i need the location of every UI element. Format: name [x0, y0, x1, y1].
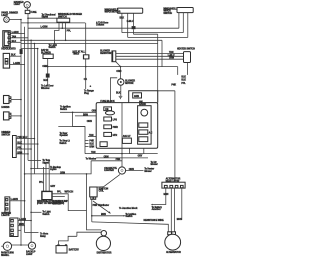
svg-text:SWITCH: SWITCH — [53, 204, 62, 206]
wire: vertical bus x=28 (marker light feed) — [28, 14, 41, 161]
wire: regulator pin 3 — [174, 188, 176, 232]
label: to heater blower — [144, 168, 154, 173]
wire: marker light stem — [27, 8, 29, 10]
distributor: body — [96, 236, 110, 250]
wire: horn 1 lead — [11, 99, 21, 101]
svg-text:HEATER SWITCH: HEATER SWITCH — [177, 47, 195, 50]
fuse block: outline — [96, 103, 158, 149]
svg-text:SIGNAL: SIGNAL — [1, 254, 10, 257]
svg-text:SWITCH: SWITCH — [163, 13, 172, 15]
svg-text:A C: A C — [149, 132, 153, 135]
wire: regulator pin 1 — [151, 188, 166, 206]
svg-text:ORN: ORN — [129, 169, 134, 171]
svg-text:PPL: PPL — [57, 191, 62, 193]
lamp: panel dimmer light — [4, 17, 10, 23]
svg-text:L-GRN: L-GRN — [13, 63, 20, 65]
wire: wiper motor leg 3 with connector — [133, 13, 135, 26]
label: marker lights (lower connector) — [1, 212, 11, 217]
label: to brake — [50, 167, 62, 171]
label: backup light — [26, 251, 36, 256]
label: blower motor — [125, 81, 135, 85]
wire: main horizontal bus y=66.5 — [44, 67, 178, 75]
svg-text:SWITCH: SWITCH — [1, 134, 10, 136]
svg-text:TAN: TAN — [169, 51, 174, 54]
fuse: bottom row right (ash lt) — [122, 135, 131, 143]
lamp: park/turn signal — [1, 242, 11, 250]
relay: RAP in blower box — [43, 54, 53, 58]
svg-text:Switch: Switch — [60, 108, 68, 111]
svg-text:GRY: GRY — [50, 186, 55, 188]
label: to ignition switch — [125, 213, 136, 218]
svg-text:PNK: PNK — [116, 159, 121, 161]
coil: ignition coil — [90, 187, 97, 199]
wire: lower conn wires — [10, 56, 25, 64]
wire: below block TAN — [85, 153, 158, 155]
wire: horizontal y=31.5 bus (wiper) — [134, 33, 158, 35]
wire: battery step from distributor line — [77, 232, 102, 236]
motor: windshield wiper motor — [117, 8, 142, 13]
wire: hot feed vertical — [85, 23, 87, 89]
svg-text:GRN: GRN — [134, 96, 139, 98]
svg-text:BRN: BRN — [177, 219, 182, 221]
label: horns — [1, 107, 9, 109]
svg-text:ORN: ORN — [116, 71, 121, 73]
svg-text:PNK: PNK — [171, 84, 176, 86]
connector: headlight connector lower — [3, 53, 9, 68]
svg-text:BLK: BLK — [89, 143, 94, 145]
wire: horizontal y=36.7 bus (wiper) — [128, 36, 188, 38]
svg-text:ORN: ORN — [42, 66, 47, 68]
wire: stub to brake — [30, 168, 49, 213]
alternator: body — [165, 234, 181, 250]
wire: drop into fuse block left of blower — [110, 78, 117, 103]
label: to PRNDL — [53, 201, 65, 205]
wire: BRN to ignition switch — [92, 215, 126, 217]
svg-text:To Junction Block: To Junction Block — [119, 207, 138, 210]
svg-text:PNK: PNK — [89, 140, 94, 142]
connector: mid-left connector — [5, 197, 10, 212]
wire: ORN into fuse block — [60, 111, 96, 113]
svg-text:GRY: GRY — [138, 155, 143, 157]
wire: washer switch leg 3 PPL — [65, 22, 67, 40]
svg-text:HEADLIGHTS: HEADLIGHTS — [1, 47, 16, 50]
wire: horn 2 lead — [11, 115, 21, 117]
svg-text:BATTERY: BATTERY — [69, 248, 80, 251]
label: fuse block — [100, 101, 115, 103]
wire: heater switch BLK down — [187, 63, 189, 75]
labels: lead tags — [19, 219, 26, 226]
radio: dial circle — [141, 109, 148, 116]
svg-text:L-GRN: L-GRN — [11, 199, 18, 201]
wire: radio drop — [143, 148, 145, 153]
labels: dimmer wire tags — [17, 137, 27, 154]
svg-text:Blower: Blower — [151, 164, 158, 166]
svg-text:CA: CA — [84, 78, 88, 81]
wire: washer switch leg 2 — [61, 22, 63, 28]
wire: wiper motor leg BLK — [121, 13, 123, 32]
label: park turn signal — [1, 252, 14, 257]
svg-text:BRN: BRN — [17, 152, 22, 154]
wire: below block PNK — [91, 160, 122, 162]
label: alternator regulator — [166, 178, 181, 183]
label: to htr blower (right) — [151, 161, 158, 166]
svg-text:LIGHT: LIGHT — [1, 15, 8, 17]
wire: wiper switch leg 2 — [182, 13, 184, 33]
wire: lighter to ignition coil diagonal — [97, 174, 120, 187]
label: to directional signal — [42, 14, 56, 19]
radio: AM radio sub-box — [138, 106, 152, 145]
ground: blower motor ground — [119, 96, 123, 98]
fuse block: upper-right extension — [129, 91, 158, 103]
wire: washer switch leg 1 — [55, 22, 59, 43]
svg-text:Switch: Switch — [125, 215, 133, 218]
wire: vertical bus x=34.4 — [33, 44, 35, 174]
breaker: CB box — [104, 107, 112, 111]
wire: connector to bus — [133, 29, 135, 34]
wire: washer pump feeds — [44, 160, 50, 191]
label: BLK / to left door — [41, 80, 54, 90]
svg-text:MOTOR: MOTOR — [125, 83, 134, 85]
svg-text:TAN: TAN — [12, 35, 17, 38]
svg-text:RESISTOR: RESISTOR — [100, 53, 111, 55]
svg-text:BLK: BLK — [12, 41, 17, 43]
svg-text:LIGHTER: LIGHTER — [104, 170, 114, 172]
switch: heater switch — [184, 52, 191, 63]
fuse: GRN box in extension — [133, 93, 142, 98]
wire: wiper switch leg 1 — [178, 13, 180, 29]
svg-text:PPL: PPL — [67, 31, 72, 33]
wire: TAN into fuse block — [88, 135, 96, 137]
label: heater switch — [177, 47, 195, 50]
labels: TAN L-BLU ORN — [168, 51, 175, 60]
fuse: marker light fuse — [25, 10, 37, 14]
radio: connector 1 — [139, 123, 148, 127]
wire: mid connector lead — [10, 200, 25, 202]
svg-text:L-BLU: L-BLU — [168, 55, 175, 57]
wire: regulator pin 2 — [170, 188, 172, 232]
svg-text:W/TACH: W/TACH — [65, 190, 74, 193]
svg-text:ORN: ORN — [169, 58, 174, 60]
svg-text:Junction: Junction — [152, 208, 162, 211]
motor: blower motor — [118, 79, 124, 85]
label: AM radio — [139, 101, 146, 106]
svg-text:Column: Column — [96, 25, 105, 27]
svg-text:REGULATOR: REGULATOR — [166, 180, 180, 183]
wire: pump side lead 2 — [52, 196, 65, 198]
svg-text:Blower: Blower — [144, 171, 151, 173]
svg-text:BLK: BLK — [181, 80, 186, 82]
label: RAP in blower — [41, 49, 51, 54]
wire: upper step line — [58, 126, 85, 128]
label: windshield wiper motor — [105, 10, 121, 14]
label: to rear speaker — [60, 133, 69, 137]
wire: resistor to heater switch TAN — [116, 52, 184, 54]
connector: dimmer switch connector — [13, 136, 17, 158]
wire: battery stepped feed — [59, 236, 77, 244]
wire: RAP lead tail — [47, 78, 49, 85]
svg-text:BRN: BRN — [101, 214, 106, 216]
svg-text:ORN: ORN — [104, 156, 109, 158]
svg-text:PNK: PNK — [93, 205, 98, 207]
svg-text:BRN: BRN — [89, 146, 94, 148]
svg-text:LPS: LPS — [113, 120, 118, 122]
svg-text:RESISTANCE WIRE: RESISTANCE WIRE — [144, 219, 165, 222]
svg-text:Signal: Signal — [42, 17, 49, 19]
connector: lower-left connector — [10, 218, 18, 237]
svg-text:Window: Window — [41, 88, 50, 90]
resistor: blower resistor — [112, 51, 116, 62]
svg-text:TIMES: TIMES — [73, 54, 80, 56]
svg-text:ORN: ORN — [87, 121, 92, 123]
svg-text:BRN: BRN — [164, 194, 169, 196]
wire: regulator pin 4 to battery junction — [181, 188, 183, 220]
wire: park to backup — [12, 244, 29, 246]
connector: black box on RAP lead — [46, 74, 50, 78]
label: windshield washer switch — [58, 13, 82, 18]
label: to wiper motor — [42, 160, 50, 164]
horn: lower horn — [4, 112, 11, 120]
svg-text:PPL: PPL — [181, 83, 186, 85]
svg-text:L-BLU: L-BLU — [127, 21, 134, 23]
svg-text:PPL: PPL — [17, 147, 22, 149]
labels: BLK stack — [181, 76, 186, 84]
wire: vertical bus x=21 (panel light feed) — [20, 20, 22, 245]
svg-text:PWR: PWR — [113, 127, 119, 129]
connector: headlight connector upper — [3, 31, 11, 47]
label: to light switch — [42, 211, 51, 216]
battery — [56, 244, 67, 253]
switch: windshield wiper switch — [177, 8, 193, 13]
wire: horizontal y=173.9 — [24, 161, 102, 230]
label: to ignition switch — [60, 106, 71, 111]
svg-text:Distributor: Distributor — [98, 204, 109, 207]
svg-text:LIGHT: LIGHT — [26, 254, 33, 256]
wire: vertical bus x=37.7 — [37, 49, 39, 169]
svg-text:Speaker: Speaker — [60, 135, 69, 137]
svg-text:BRN: BRN — [83, 114, 88, 116]
label: dimmer switch — [1, 132, 10, 136]
svg-text:ASH LT: ASH LT — [123, 135, 131, 138]
wire: horizontal y=33.8 bus — [122, 32, 183, 34]
wire: horizontal y=22.9 to fuse — [21, 22, 85, 24]
radio: connector 3 — [139, 137, 148, 142]
wire: horizontal y=43.5 bus to fuse block — [21, 34, 158, 102]
svg-text:FUSE BLOCK: FUSE BLOCK — [100, 101, 115, 103]
wire: BRN into fuse block — [75, 115, 96, 117]
svg-text:BLK: BLK — [17, 142, 22, 144]
svg-text:DISTRIBUTOR: DISTRIBUTOR — [97, 252, 112, 254]
fuse: HTR AC — [104, 132, 118, 137]
fuse: black inline fuse on horn feed — [20, 49, 23, 54]
svg-text:LIGHT: LIGHT — [14, 4, 21, 6]
wire: vertical bus x=31.1 (backup light feed) — [30, 40, 32, 242]
regulator: alternator regulator — [162, 182, 185, 188]
svg-text:ORN: ORN — [60, 172, 65, 174]
wire: stepped wire from bus to below fuse block — [73, 112, 85, 153]
label: to light switch (upper) — [49, 44, 58, 49]
svg-text:ALTERNATOR: ALTERNATOR — [166, 251, 181, 254]
svg-text:FUSE: FUSE — [31, 12, 37, 14]
wire: horizontal bus y=86.2 to regulator — [158, 91, 175, 186]
distributor: cap small circle — [101, 231, 106, 236]
svg-text:PPL: PPL — [39, 182, 44, 184]
labels: pump wire tags — [39, 182, 56, 188]
svg-text:WIPER MOTOR: WIPER MOTOR — [105, 12, 121, 14]
svg-text:L-GRN: L-GRN — [41, 27, 48, 29]
svg-text:Switch: Switch — [42, 213, 50, 216]
lamp: marker light — [24, 2, 30, 8]
wire: blower motor ground lead — [120, 85, 122, 96]
wire: feed through fuse block — [121, 103, 123, 167]
fuse: hot feed fuse — [83, 55, 89, 59]
svg-text:Switch: Switch — [49, 46, 57, 49]
svg-text:Switch: Switch — [59, 142, 67, 145]
svg-text:BLOWER: BLOWER — [41, 52, 51, 54]
label: cigarette lighter — [104, 167, 117, 172]
wire: coil to distributor vertical — [91, 199, 93, 222]
label: marker light — [14, 1, 24, 6]
lamp: backup light — [28, 242, 35, 249]
fuse: PWR ACC — [104, 125, 118, 129]
wire: wiper motor leg L-BLU — [127, 13, 129, 37]
pump: windshield washer pump — [42, 191, 52, 199]
lighter: cigarette lighter — [118, 167, 125, 174]
wire: wiper switch leg 3 — [187, 13, 189, 38]
labels: PNK BLK BRN stubs — [85, 140, 95, 148]
svg-text:COIL: COIL — [99, 191, 105, 193]
svg-text:LIGHTS: LIGHTS — [1, 215, 9, 217]
svg-text:HTR: HTR — [113, 135, 118, 137]
svg-text:To Washer: To Washer — [86, 159, 97, 161]
breaker: ellipse — [105, 111, 114, 115]
svg-text:HORNS: HORNS — [1, 107, 9, 109]
wire: resistance wire — [92, 222, 169, 232]
alternator: terminals — [168, 232, 176, 235]
switch: windshield washer switch — [57, 18, 70, 22]
svg-text:SWITCH: SWITCH — [58, 16, 67, 18]
label: blower resistor — [100, 51, 111, 55]
wire: lower connector leads — [18, 221, 31, 231]
svg-text:TAN: TAN — [91, 151, 96, 154]
svg-text:PNK BLU: PNK BLU — [17, 137, 27, 139]
svg-text:BRN: BRN — [19, 224, 24, 226]
svg-text:L-GRN: L-GRN — [12, 32, 19, 34]
label: headlights — [1, 47, 16, 50]
fuse: LPS — [104, 117, 118, 122]
label: hot at all times — [73, 50, 86, 55]
wire: resistor to blower motor — [116, 62, 121, 79]
label: to range plug — [84, 91, 94, 95]
svg-text:BLK: BLK — [181, 76, 186, 78]
svg-text:BLK: BLK — [11, 55, 16, 57]
svg-text:BLK: BLK — [116, 92, 121, 94]
wire: resistor to heater switch ORN — [116, 58, 184, 60]
svg-text:BLK: BLK — [43, 80, 48, 82]
label: wire tags — [12, 32, 19, 43]
wire: dimmer wires — [16, 139, 38, 154]
connector: inline black square — [132, 26, 136, 29]
wire: horizontal y=48.5 short — [21, 48, 38, 50]
label: ignition coil — [99, 188, 109, 192]
wire: horizontal y=18.2 marker to washer switch — [28, 17, 57, 19]
wire: vertical bus x=24.6 — [25, 27, 39, 233]
svg-text:RADIO: RADIO — [139, 103, 146, 106]
label: note A 72-B — [96, 21, 109, 26]
horn: upper horn — [4, 96, 11, 104]
label: washer pump — [37, 200, 68, 205]
wire: resistor to heater switch L-BLU — [116, 55, 184, 57]
label: to stop light switch — [59, 140, 70, 145]
wire: lighter feed right — [126, 170, 144, 172]
wire: RAP lead down — [47, 59, 49, 74]
wire: pump side lead 1 — [52, 194, 87, 211]
fuse: bottom row left — [100, 142, 107, 147]
label: to horn relay — [40, 234, 49, 238]
wire: horizontal y=40.3 bus to heater switch — [21, 40, 162, 66]
svg-text:Lights: Lights — [50, 168, 57, 171]
label: to battery junction — [152, 206, 163, 211]
wire: diagonal to distributor tach — [93, 201, 111, 214]
svg-text:Plug: Plug — [84, 93, 89, 95]
wire: dimmer lamp stem — [9, 19, 22, 21]
label: windshield wiper switch — [163, 8, 177, 14]
svg-text:TAN: TAN — [89, 134, 94, 137]
radio: connector 2 — [139, 130, 153, 135]
svg-text:Relay: Relay — [40, 236, 47, 238]
wire: headlight conn wires — [10, 34, 28, 43]
label: panel dimmer light — [1, 12, 18, 17]
wire: fuse block drop — [128, 148, 130, 153]
svg-text:BLK: BLK — [120, 17, 125, 19]
wire: below block ORN — [96, 157, 148, 159]
wire: horizontal y=26.8 L-GRN bus — [28, 27, 179, 29]
